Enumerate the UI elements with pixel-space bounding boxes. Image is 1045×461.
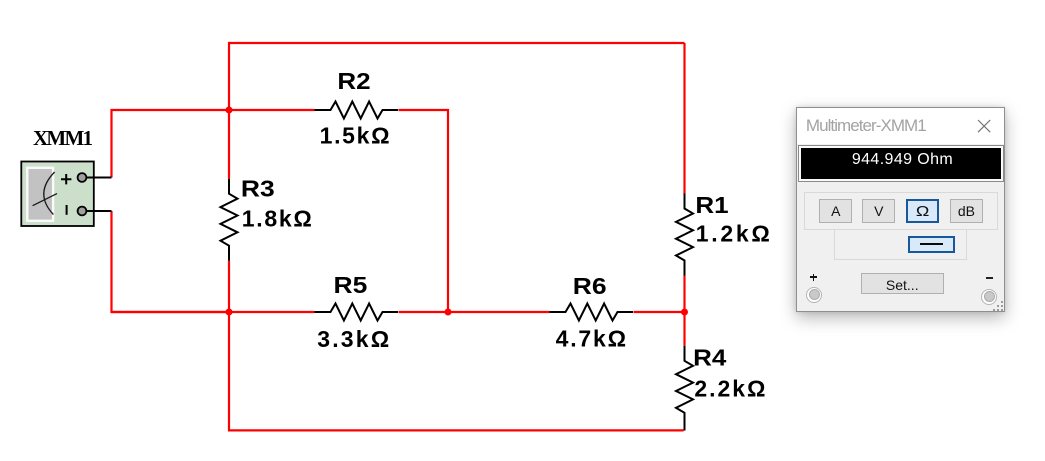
svg-text:1.2kΩ: 1.2kΩ (696, 220, 770, 246)
svg-text:R2: R2 (337, 69, 370, 94)
svg-text:4.7kΩ: 4.7kΩ (556, 326, 627, 352)
svg-text:1.8kΩ: 1.8kΩ (242, 205, 312, 231)
svg-text:R3: R3 (241, 177, 275, 202)
svg-text:XMM1: XMM1 (33, 126, 93, 150)
svg-text:2.2kΩ: 2.2kΩ (694, 375, 765, 401)
svg-text:1.5kΩ: 1.5kΩ (320, 123, 390, 149)
svg-text:3.3kΩ: 3.3kΩ (317, 326, 389, 352)
svg-text:R4: R4 (693, 346, 727, 371)
svg-text:R5: R5 (334, 274, 368, 299)
svg-text:R1: R1 (695, 193, 728, 218)
svg-text:R6: R6 (573, 275, 607, 300)
